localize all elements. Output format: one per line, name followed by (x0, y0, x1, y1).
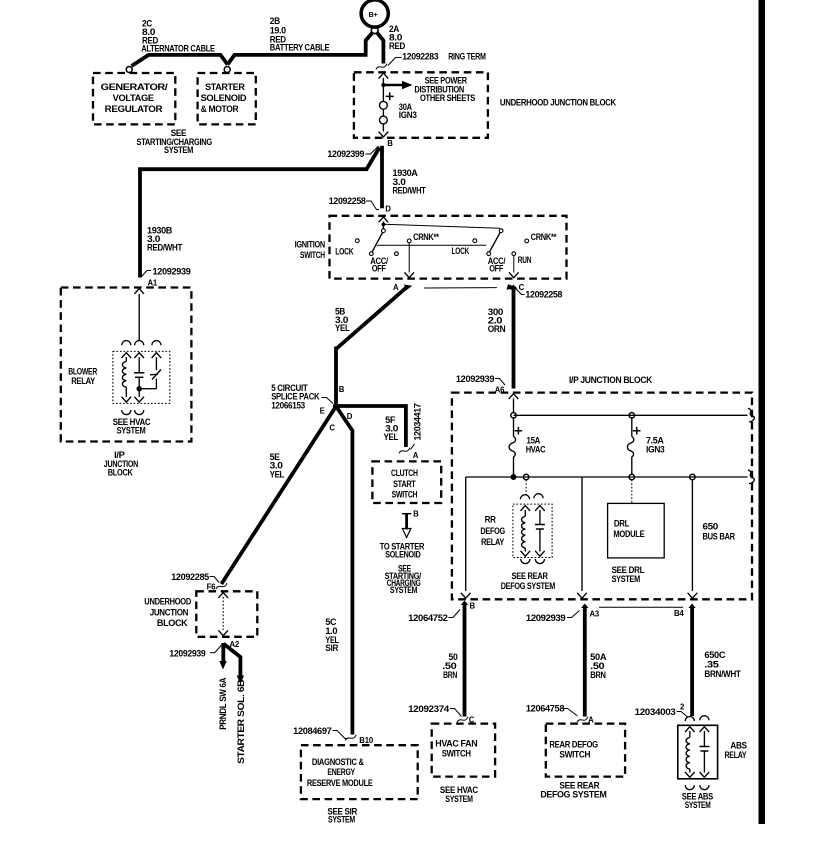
svg-text:DEFOG SYSTEM: DEFOG SYSTEM (540, 789, 607, 799)
svg-text:SYSTEM: SYSTEM (390, 585, 418, 595)
left leg to node B (465, 477, 467, 591)
svg-text:B: B (339, 385, 345, 394)
svg-text:12092285: 12092285 (171, 572, 209, 582)
connector at F6 (216, 583, 227, 589)
svg-text:RELAY: RELAY (481, 537, 504, 547)
wire 300 from ignition C to I/P junction block (512, 289, 516, 389)
leader 12092939 to A2 (210, 645, 222, 653)
starter solenoid and motor box (198, 73, 256, 124)
leader 12064758 (563, 709, 578, 717)
svg-text:DEFOG SYSTEM: DEFOG SYSTEM (501, 581, 556, 591)
wire 50 from node B (463, 605, 467, 717)
connector arcs below ABS relay (685, 785, 694, 790)
leader 12064752 (449, 610, 461, 618)
underhood junction block (F6) box (196, 591, 257, 637)
svg-text:HVAC: HVAC (526, 444, 546, 454)
ABS relay box (678, 725, 718, 779)
leader 12092283 (388, 58, 402, 66)
bus 2 (466, 476, 748, 478)
svg-text:SWITCH: SWITCH (392, 489, 418, 499)
pin arrow out of block bottom (379, 132, 389, 137)
svg-text:SWITCH: SWITCH (300, 250, 325, 260)
svg-text:RELAY: RELAY (71, 376, 95, 386)
note see rear defog system (501, 571, 556, 591)
svg-text:UNDERHOOD JUNCTION BLOCK: UNDERHOOD JUNCTION BLOCK (500, 97, 617, 107)
gang line row 2 (377, 244, 486, 246)
svg-text:SYSTEM: SYSTEM (117, 426, 146, 436)
I/P junction block box (452, 393, 752, 600)
HVAC fan switch box (432, 724, 495, 777)
pin arrow into block at A6 (509, 394, 519, 399)
svg-text:DIAGNOSTIC &: DIAGNOSTIC & (312, 757, 364, 767)
note see sir system (327, 807, 357, 825)
svg-text:BRN/WHT: BRN/WHT (704, 669, 741, 679)
svg-text:& MOTOR: & MOTOR (201, 104, 239, 114)
leader 12092939 to A6 (495, 379, 505, 386)
connector at HVAC switch node C (457, 717, 468, 723)
pin arrow into block top (379, 73, 389, 78)
note see rear defog system (540, 780, 607, 799)
svg-text:SYSTEM: SYSTEM (164, 145, 194, 155)
connector symbol at wire 2A end (376, 64, 387, 70)
label wire 2B (270, 16, 330, 53)
ABS relay contact leg (699, 727, 709, 778)
wire 5B from ignition A to splice (336, 287, 408, 407)
arrow see power distribution (383, 84, 403, 87)
left pole wiper (382, 229, 386, 233)
terminal circle on generator box (126, 67, 132, 73)
svg-text:OFF: OFF (489, 263, 504, 273)
svg-text:RUN: RUN (518, 255, 532, 265)
pin arrow from node D into switch (379, 217, 389, 222)
svg-text:BLOCK: BLOCK (108, 468, 133, 478)
label to starter solenoid (380, 541, 425, 559)
switch common junction (382, 222, 384, 229)
svg-text:12092939: 12092939 (169, 648, 205, 658)
label ignition switch (295, 239, 326, 259)
wire 650C from node B4 (690, 608, 694, 717)
svg-text:MODULE: MODULE (613, 529, 644, 539)
svg-text:12092258: 12092258 (329, 196, 366, 206)
wire 5E to F6 (221, 406, 336, 584)
wire to node A inside switch (408, 243, 410, 273)
wire to node C inside switch (513, 256, 515, 273)
svg-text:B10: B10 (359, 736, 374, 745)
svg-text:12092939: 12092939 (153, 266, 191, 276)
svg-text:.35: .35 (704, 659, 718, 669)
junction node dot (381, 83, 385, 87)
svg-text:CRNK**: CRNK** (413, 232, 439, 242)
leader 12092939 (567, 611, 580, 618)
contact LOCK left (355, 239, 359, 243)
note see hvac system (113, 417, 151, 435)
svg-text:SYSTEM: SYSTEM (328, 814, 355, 824)
label wire 2A (389, 24, 406, 51)
blower relay outline (113, 351, 170, 403)
label 5 circuit splice pack 12066153 (271, 383, 320, 411)
plus mark (386, 92, 394, 100)
connector arcs below relay (122, 410, 131, 415)
svg-text:RED/WHT: RED/WHT (393, 186, 427, 196)
svg-text:RED/WHT: RED/WHT (147, 242, 183, 252)
wire PRNDL SW 6A (219, 643, 226, 670)
svg-text:HVAC FAN: HVAC FAN (435, 739, 478, 749)
contact CRNK right (525, 239, 529, 243)
svg-text:ORN: ORN (488, 324, 506, 334)
wire down to blower relay (138, 294, 140, 341)
contact RUN (512, 252, 516, 256)
alternator cable wire 2C (132, 55, 228, 66)
svg-text:BLOCK: BLOCK (157, 618, 188, 628)
svg-text:BRN: BRN (443, 670, 458, 680)
label wire 300 (488, 307, 506, 334)
label ABS relay (725, 741, 747, 760)
clutch start switch box (372, 461, 441, 503)
svg-text:GENERATOR/: GENERATOR/ (101, 82, 169, 92)
ABS relay coil leg (685, 727, 695, 778)
battery terminal B+ (361, 0, 388, 27)
leader 12092399 (366, 146, 379, 154)
gang line to crank contact (385, 224, 501, 228)
relay coil leg (521, 506, 531, 557)
svg-text:RELAY: RELAY (725, 750, 747, 760)
connector arcs above ABS relay (685, 717, 694, 722)
svg-text:E: E (320, 407, 325, 416)
svg-text:STARTER SOL. 6B: STARTER SOL. 6B (236, 679, 246, 764)
label 650 bus bar (703, 522, 736, 542)
leader 12092374 (450, 709, 462, 717)
leader 12034417 (411, 444, 415, 450)
svg-text:UNDERHOOD: UNDERHOOD (144, 597, 191, 607)
label wire 50A (590, 652, 607, 680)
leader splice pack (322, 398, 334, 404)
wire 50A from node A3 (583, 608, 587, 717)
svg-text:12092283: 12092283 (402, 51, 438, 61)
svg-text:12064758: 12064758 (526, 704, 564, 714)
svg-text:B4: B4 (674, 609, 684, 618)
label underhood junction block (144, 597, 191, 629)
svg-text:B+: B+ (369, 10, 379, 19)
dotted drop to DRL module (631, 480, 633, 503)
pin arrow into block at A1 (134, 289, 144, 294)
generator/voltage regulator box (93, 73, 175, 124)
label wire 650C (704, 650, 741, 679)
label RR defog relay (480, 515, 505, 548)
svg-text:RED: RED (389, 41, 406, 51)
wire 2A 8.0 RED (366, 33, 373, 54)
svg-text:D: D (385, 205, 391, 214)
wire 5F to clutch start switch (336, 406, 406, 447)
svg-text:SOLENOID: SOLENOID (385, 550, 421, 560)
svg-text:DRL: DRL (614, 519, 630, 529)
wire inside block (382, 78, 384, 101)
svg-text:C: C (329, 424, 335, 433)
svg-text:12064752: 12064752 (408, 613, 448, 623)
label wire 5C (325, 617, 339, 653)
relay contact leg (535, 506, 545, 557)
svg-text:ALTERNATOR CABLE: ALTERNATOR CABLE (141, 43, 215, 53)
svg-text:REAR DEFOG: REAR DEFOG (549, 739, 598, 749)
svg-text:RESERVE MODULE: RESERVE MODULE (307, 778, 373, 788)
connector at 5F end (399, 448, 410, 454)
rear defog switch box (546, 724, 625, 777)
I/P junction block (blower relay) box (61, 288, 192, 442)
fuse 7.5A IGN3 (627, 418, 640, 474)
svg-text:12034417: 12034417 (413, 403, 423, 440)
svg-text:12092939: 12092939 (456, 374, 494, 384)
svg-text:START: START (393, 479, 416, 489)
svg-text:IGN3: IGN3 (399, 110, 417, 120)
battery cable wire 2B (228, 55, 368, 65)
svg-text:650: 650 (703, 522, 719, 532)
relay coil leg (122, 353, 132, 402)
wire 5C to DERM (337, 407, 353, 735)
svg-text:I/P JUNCTION BLOCK: I/P JUNCTION BLOCK (569, 375, 653, 385)
label wire 1930A (393, 168, 427, 195)
svg-text:SYSTEM: SYSTEM (612, 574, 641, 584)
connector arcs below relay (521, 559, 530, 564)
contact above lock (473, 239, 477, 243)
connector arcs above relay (122, 341, 131, 346)
label ACC/OFF left (370, 256, 388, 273)
svg-text:BUS BAR: BUS BAR (703, 532, 736, 542)
DRL module box (608, 503, 665, 558)
bus 1 (514, 414, 748, 416)
terminal circle on starter box (224, 67, 230, 73)
underhood junction block box (354, 72, 488, 138)
svg-text:SWITCH: SWITCH (559, 749, 590, 759)
svg-text:REGULATOR: REGULATOR (105, 104, 163, 114)
svg-text:12066153: 12066153 (271, 401, 305, 411)
linkage line between A and C (424, 287, 497, 289)
ignition switch box (330, 216, 567, 279)
svg-text:VOLTAGE: VOLTAGE (113, 93, 154, 103)
svg-text:LOCK: LOCK (335, 246, 354, 256)
label wire 2C (141, 18, 215, 53)
svg-text:BRN: BRN (590, 670, 606, 680)
leader 12092258 at C (516, 289, 525, 295)
RR defog relay outline (513, 504, 552, 557)
splice pack junction (333, 403, 339, 409)
svg-text:SYSTEM: SYSTEM (685, 800, 711, 810)
svg-text:SIR: SIR (325, 643, 338, 653)
label wire 5B (335, 306, 350, 333)
650 bus bar leg (691, 480, 693, 591)
dotted drop to RR defog relay (525, 480, 527, 495)
svg-text:YEL: YEL (335, 323, 350, 333)
svg-text:LOCK: LOCK (452, 246, 470, 256)
label wire 50 (442, 652, 457, 680)
svg-text:IGN3: IGN3 (646, 444, 665, 454)
svg-text:PRNDL SW 6A: PRNDL SW 6A (218, 677, 228, 730)
svg-text:B: B (413, 509, 419, 518)
label wire 1930B (147, 225, 183, 252)
note see drl system (612, 565, 645, 584)
leader 12092939 to node A1 (142, 271, 152, 277)
svg-text:D: D (347, 412, 353, 421)
relay NO contact leg (141, 353, 161, 389)
svg-text:SOLENOID: SOLENOID (201, 93, 247, 103)
svg-text:BLOWER: BLOWER (68, 367, 97, 377)
svg-text:B: B (470, 602, 476, 611)
leader 12092258 to node D (366, 201, 379, 210)
svg-text:DEFOG: DEFOG (480, 526, 505, 536)
thin link line A3 to B4 (599, 606, 683, 608)
contact (spare) (395, 252, 399, 256)
fuse 15A HVAC (509, 418, 522, 475)
note see starting/charging system (385, 564, 422, 595)
svg-text:A3: A3 (590, 610, 600, 619)
leader 12092285 to F6 (210, 577, 220, 583)
svg-text:12092399: 12092399 (327, 149, 364, 159)
DERM box (301, 745, 418, 799)
border bar (right page edge) (759, 0, 766, 824)
wire to starter solenoid with arrow (402, 514, 411, 538)
wire STARTER SOL 6B (224, 644, 245, 684)
connector at DERM B10 (345, 735, 356, 741)
label I/P junction block (104, 450, 139, 478)
wire feed to blower (horizontal run) (140, 148, 380, 278)
note see starting/charging system (137, 128, 213, 155)
svg-text:CLUTCH: CLUTCH (391, 468, 418, 478)
svg-text:IGNITION: IGNITION (295, 239, 326, 249)
svg-text:OTHER SHEETS: OTHER SHEETS (420, 93, 475, 103)
svg-text:A: A (413, 451, 419, 460)
svg-text:SYSTEM: SYSTEM (445, 794, 473, 804)
right leg to node A3 (581, 477, 583, 591)
note see abs system (682, 792, 713, 810)
label wire 5E (270, 452, 285, 479)
svg-text:B: B (387, 139, 393, 148)
label ACC/OFF right (488, 256, 506, 273)
leader 12084697 to B10 (333, 731, 349, 739)
ring terminal 12092283 (371, 27, 378, 34)
svg-text:C: C (519, 283, 525, 292)
label blower relay (68, 367, 97, 387)
pass-through wire in block (218, 593, 228, 598)
svg-text:ENERGY: ENERGY (327, 767, 355, 777)
svg-text:SEE REAR: SEE REAR (512, 571, 549, 581)
note see hvac system (440, 785, 479, 804)
svg-text:BATTERY CABLE: BATTERY CABLE (270, 43, 330, 53)
connector at rear defog switch node A (577, 717, 588, 723)
label wire 5F (384, 415, 399, 442)
leader 12034003 to pin 2 (677, 712, 688, 718)
svg-text:YEL: YEL (270, 469, 285, 479)
svg-text:A: A (393, 283, 399, 292)
svg-text:A1: A1 (148, 279, 158, 288)
svg-text:CRNK**: CRNK** (531, 232, 557, 242)
junction dot bus 2 (511, 474, 517, 480)
fuse 30A IGN3 (380, 101, 388, 109)
svg-text:12092258: 12092258 (525, 290, 562, 300)
svg-text:SWITCH: SWITCH (442, 749, 472, 759)
svg-text:RR: RR (485, 515, 497, 525)
wire 1930A from node B down to node D (380, 146, 384, 209)
svg-text:12092939: 12092939 (526, 613, 566, 623)
contact CRNK left (407, 239, 411, 243)
right pole wiper (499, 229, 503, 233)
svg-text:STARTER: STARTER (205, 82, 245, 92)
svg-text:JUNCTION: JUNCTION (150, 607, 189, 617)
relay common contact leg (134, 353, 144, 402)
svg-text:12034003: 12034003 (635, 707, 676, 717)
svg-text:OFF: OFF (372, 263, 387, 273)
connector arcs above relay (520, 495, 529, 500)
svg-text:YEL: YEL (384, 432, 399, 442)
svg-text:RING TERM: RING TERM (448, 51, 486, 61)
svg-text:12084697: 12084697 (293, 726, 331, 736)
svg-text:12092374: 12092374 (408, 704, 450, 714)
